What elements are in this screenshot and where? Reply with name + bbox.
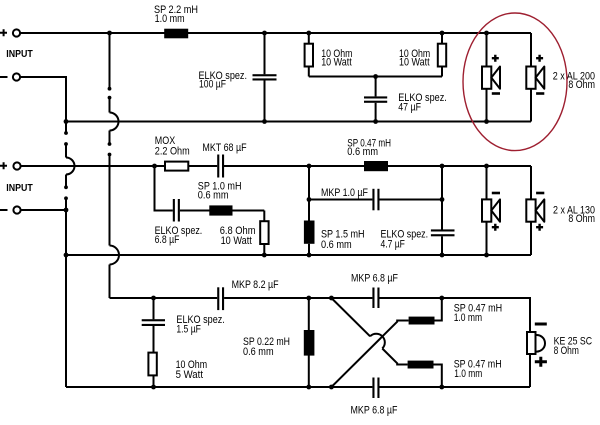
capacitor MKP 6.8 uF top [372, 288, 374, 309]
svg-text:8 Ohm: 8 Ohm [554, 345, 579, 357]
capacitor MKP 6.8 uF bottom [372, 378, 374, 399]
wire diagonal B bottom-left to upper inductor [331, 321, 408, 388]
capacitor ELKO spez. 47 uF [375, 77, 377, 97]
wire hop bus minus over rail y166 [66, 158, 75, 175]
node bus minus dots [64, 119, 69, 124]
node minus terminal 1 [0, 76, 8, 78]
inductor SP 1.0 mH [209, 205, 232, 215]
svg-text:10 Watt: 10 Watt [221, 235, 252, 247]
svg-text:47 µF: 47 µF [398, 102, 421, 114]
svg-text:10 Watt: 10 Watt [321, 57, 352, 69]
node plus terminal 2 [0, 162, 7, 169]
svg-text:100 µF: 100 µF [199, 79, 226, 91]
node plus terminal 1 [0, 29, 7, 36]
wire mid rail right [224, 165, 531, 167]
capacitor ELKO spez. 6.8 uF [173, 199, 175, 222]
node X corner dots [329, 385, 334, 390]
capacitor ELKO spez. 4.7 uF [441, 166, 443, 230]
inductor SP 1.5 mH [304, 221, 315, 244]
svg-text:1.5 µF: 1.5 µF [176, 323, 201, 335]
inductor SP 0.47 mH lower [408, 361, 434, 369]
svg-text:INPUT: INPUT [6, 49, 33, 60]
wire diagonal A top-left to lower inductor [331, 298, 407, 365]
wire hop diagonal A over diagonal B [370, 334, 385, 349]
svg-text:1.0 mm: 1.0 mm [454, 312, 483, 324]
wire minus to bus [21, 77, 67, 133]
svg-text:2.2 Ohm: 2.2 Ohm [155, 145, 190, 157]
wire top + rail [21, 32, 532, 34]
svg-text:MKP 8.2 µF: MKP 8.2 µF [232, 279, 279, 291]
svg-text:MKP 6.8 µF: MKP 6.8 µF [351, 405, 398, 417]
node bus plus dots [107, 31, 112, 36]
node tweeter rail dots [151, 296, 156, 301]
inductor SP 0.47 mH upper [409, 317, 435, 325]
inductor SP 0.22 mH [308, 298, 310, 387]
svg-text:8 Ohm: 8 Ohm [568, 213, 595, 225]
speaker woofer 2 [530, 33, 532, 122]
resistor 10 Ohm 5 Watt [148, 353, 156, 376]
wire hop bus plus over rail y121 [110, 113, 119, 131]
svg-text:0.6 mm: 0.6 mm [347, 146, 378, 158]
resistor 10 Ohm 10 Watt right [441, 33, 443, 77]
capacitor MKP 8.2 uF [217, 287, 219, 310]
svg-text:MKT 68 µF: MKT 68 µF [202, 142, 247, 154]
node mid rail dots [152, 164, 157, 169]
svg-text:0.6 mm: 0.6 mm [198, 190, 229, 202]
svg-text:6.8 µF: 6.8 µF [155, 234, 180, 246]
capacitor ELKO spez. 100 uF [264, 33, 266, 74]
svg-text:0.6 mm: 0.6 mm [243, 346, 274, 358]
node minus terminal 2 [0, 209, 8, 211]
wire tweeter rail left [110, 297, 218, 299]
wire branch sp15 down [308, 166, 310, 221]
svg-text:5 Watt: 5 Watt [176, 369, 203, 381]
inductor SP 0.47 mH mid [364, 161, 388, 171]
resistor 6.8 Ohm 10 Watt [263, 211, 265, 256]
wire bus minus vertical [65, 144, 67, 387]
wire mid bottom rail [66, 254, 531, 256]
resistor MOX 2.2 Ohm [165, 162, 188, 171]
svg-text:MKP 1.0 µF: MKP 1.0 µF [321, 187, 368, 199]
red ellipse highlight [463, 13, 567, 151]
svg-text:1.0 mm: 1.0 mm [454, 368, 482, 380]
wire resistor bottoms [309, 76, 442, 78]
inductor SP 2.2 mH [164, 29, 188, 39]
wire minus 2 to bus [21, 209, 66, 211]
speaker mid 1 [486, 166, 488, 255]
svg-text:10 Watt: 10 Watt [399, 57, 430, 69]
svg-text:1.0 mm: 1.0 mm [155, 13, 185, 25]
wire elko68 to inductor [180, 210, 264, 212]
svg-text:4.7 µF: 4.7 µF [381, 238, 406, 250]
speaker tweeter KE 25 SC [529, 354, 531, 387]
speaker mid 2 [530, 166, 532, 255]
wire hop bus plus over rail y255 [110, 246, 120, 265]
wire tweeter rail mid [224, 297, 372, 299]
wire branch elko68 down [155, 166, 173, 211]
svg-text:8 Ohm: 8 Ohm [568, 79, 595, 91]
capacitor MKP 1.0 uF [307, 197, 312, 202]
wire bottom rail [66, 386, 372, 388]
wire mid rail left [21, 165, 217, 167]
capacitor ELKO spez. 1.5 uF [153, 298, 155, 319]
wire top bottom rail [66, 121, 531, 123]
wire tweeter rail right [380, 298, 531, 331]
svg-text:INPUT: INPUT [6, 183, 33, 194]
capacitor MKT 68 uF [217, 155, 219, 178]
svg-text:MKP 6.8 µF: MKP 6.8 µF [351, 273, 398, 285]
svg-text:0.6 mm: 0.6 mm [321, 239, 352, 251]
resistor 10 Ohm 10 Watt left [308, 33, 310, 77]
wire bus plus vertical [109, 33, 111, 298]
speaker woofer 1 [486, 33, 488, 122]
